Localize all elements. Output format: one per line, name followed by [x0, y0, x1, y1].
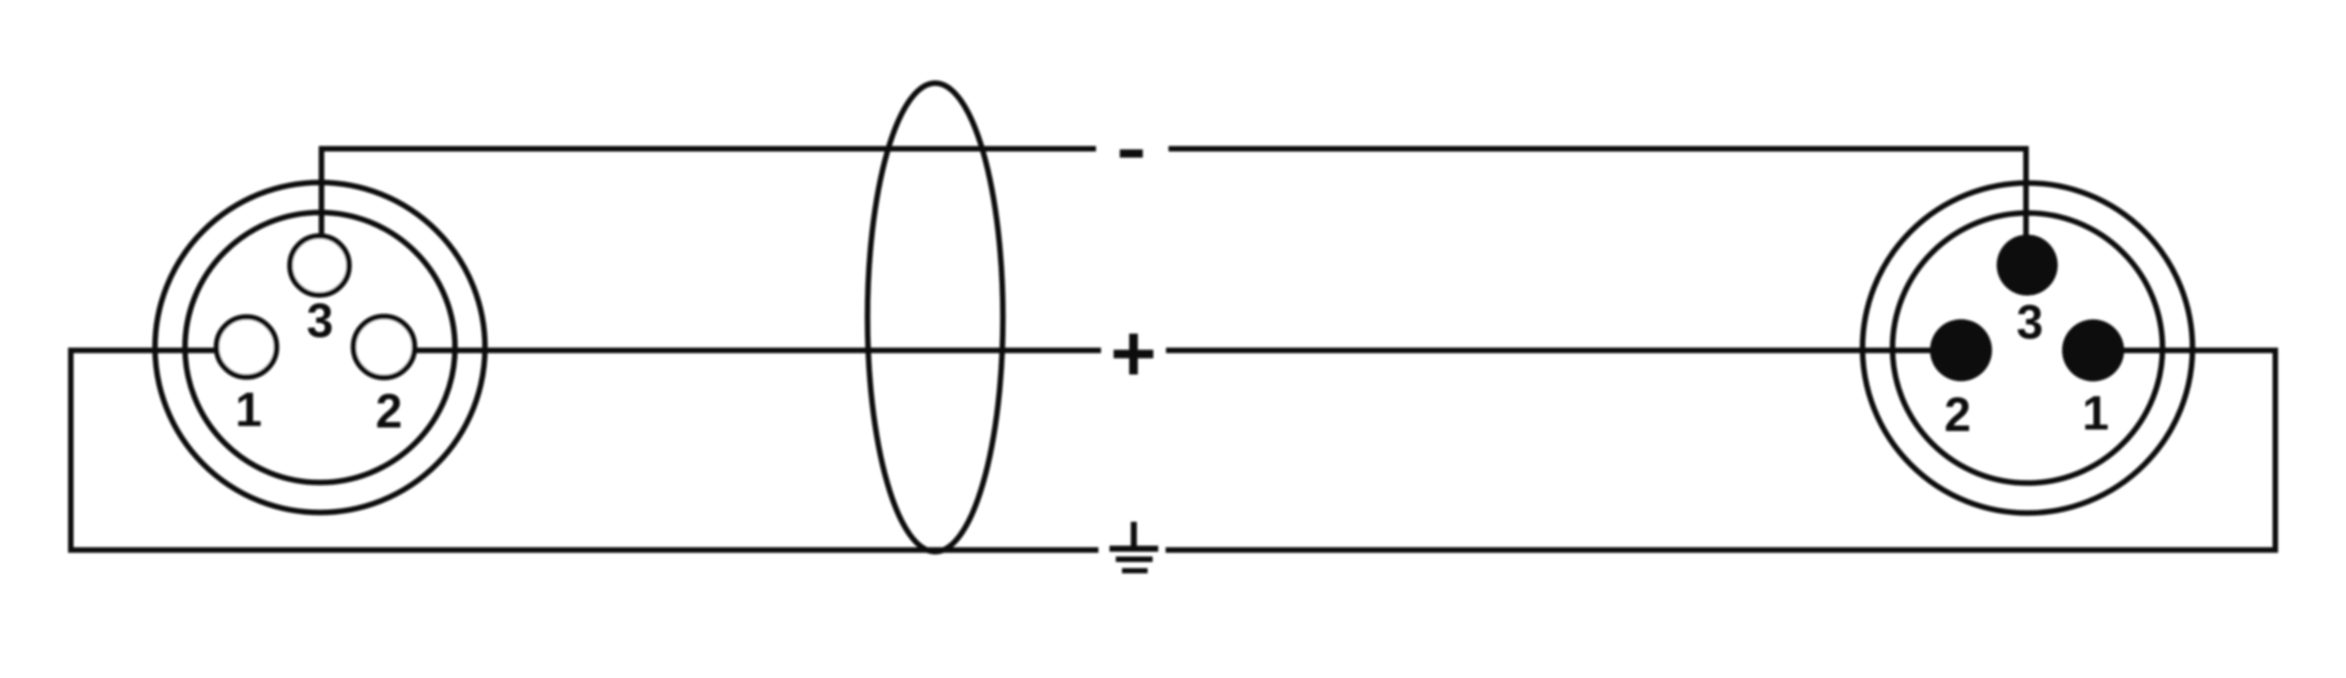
connector J2 (XLR male) outer shell — [1863, 183, 2193, 513]
J2 pin 1 contact (filled) — [2062, 319, 2124, 381]
wire: positive (+) line from left pin 2 to label gap — [415, 348, 1102, 354]
cable sheath ellipse — [868, 83, 1003, 552]
J1 pin 2 contact — [354, 317, 415, 378]
svg-text:2: 2 — [376, 386, 403, 439]
svg-text:3: 3 — [2016, 297, 2043, 350]
svg-text:1: 1 — [2082, 387, 2109, 440]
wire: positive (+) line from label gap to right pin 2 — [1166, 348, 1931, 354]
ground symbol stem — [1131, 522, 1137, 547]
svg-text:3: 3 — [307, 295, 334, 348]
connector J1 (XLR female) outer shell — [155, 183, 485, 513]
ground symbol bar 1 — [1110, 546, 1159, 552]
connector J1 inner shell — [185, 213, 455, 483]
wire: negative (-) line left segment with riser to left pin 3 — [322, 149, 1097, 238]
wire: negative (-) line right segment with riser to right pin 3 — [1169, 149, 2027, 240]
J2 pin 2 contact (filled) — [1930, 319, 1992, 381]
label: minus sign on negative line — [1120, 149, 1143, 157]
ground symbol bar 2 — [1116, 557, 1153, 563]
ground symbol bar 3 — [1122, 568, 1148, 573]
J1 pin 3 contact — [290, 236, 349, 295]
svg-text:2: 2 — [1944, 389, 1971, 442]
svg-text:1: 1 — [235, 384, 262, 437]
J1 pin 1 contact — [217, 317, 277, 377]
wire: shield line from right pin 1 down and along bottom — [1166, 350, 2276, 550]
wire: shield line from left pin 1 down and along bottom — [71, 350, 1099, 550]
connector J2 inner shell — [1893, 213, 2163, 483]
J2 pin 3 contact (filled) — [1997, 235, 2058, 296]
label: plus sign on positive line — [1114, 334, 1154, 375]
